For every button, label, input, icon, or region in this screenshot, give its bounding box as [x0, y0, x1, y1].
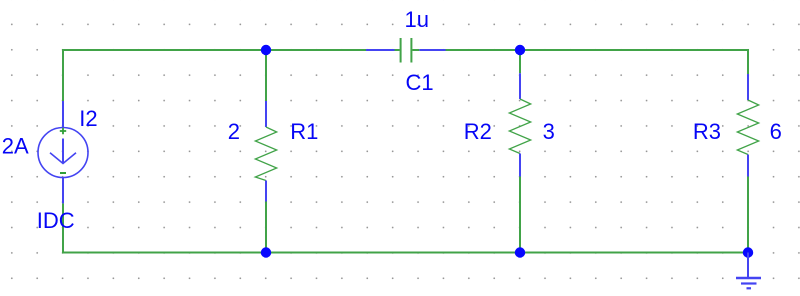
svg-text:I2: I2	[79, 106, 97, 131]
wire	[63, 50, 367, 101]
pin	[519, 154, 521, 177]
resistor R2	[509, 73, 530, 176]
resistor R3	[737, 74, 758, 177]
arrow shaft	[62, 139, 64, 164]
pin	[265, 181, 267, 202]
junction node dot	[743, 247, 753, 257]
pin	[519, 73, 521, 99]
pin	[62, 101, 64, 128]
current source I2	[38, 101, 88, 203]
pin	[747, 155, 749, 177]
wire	[63, 203, 748, 252]
junction node dot	[515, 247, 525, 257]
resistor R1	[255, 101, 276, 202]
wire	[747, 177, 749, 253]
svg-text:6: 6	[770, 119, 782, 144]
pin	[747, 74, 749, 100]
body circle	[38, 128, 88, 178]
ground bar 3	[747, 287, 752, 289]
stub	[412, 49, 419, 51]
minus mark	[60, 172, 66, 174]
wire	[519, 177, 521, 253]
plus mark	[60, 128, 66, 134]
junction node dot	[261, 45, 271, 55]
svg-text:1u: 1u	[405, 7, 429, 32]
junction node dot	[515, 45, 525, 55]
wire	[265, 50, 267, 101]
svg-text:2A: 2A	[2, 134, 29, 159]
svg-text:IDC: IDC	[37, 208, 75, 233]
svg-text:2: 2	[228, 119, 240, 144]
capacitor C1	[366, 38, 446, 63]
pin	[265, 101, 267, 127]
svg-text:R2: R2	[464, 119, 492, 144]
wire	[519, 50, 521, 73]
stub	[395, 49, 400, 51]
pin	[62, 178, 64, 204]
plate right	[410, 38, 412, 63]
wire	[265, 202, 267, 253]
zigzag	[255, 127, 276, 181]
svg-text:C1: C1	[406, 70, 434, 95]
pin	[419, 49, 445, 51]
wire	[445, 50, 748, 74]
plate left	[400, 38, 402, 63]
zigzag	[737, 100, 758, 155]
zigzag	[509, 99, 530, 154]
ground stem	[747, 253, 749, 279]
ground	[736, 253, 761, 289]
pin	[366, 49, 395, 51]
ground bar 2	[741, 282, 757, 284]
ground bar 1	[736, 277, 761, 279]
svg-text:3: 3	[543, 119, 555, 144]
junction node dot	[261, 247, 271, 257]
arrow wings	[50, 153, 76, 164]
svg-text:R3: R3	[693, 119, 721, 144]
svg-text:R1: R1	[290, 119, 318, 144]
